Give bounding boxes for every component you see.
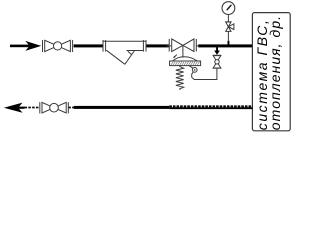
actuator diaphragm head of V2 [170, 55, 201, 66]
filter F1 Y-strainer [103, 40, 146, 64]
wire: impulse line [192, 68, 217, 79]
valve V3 small impulse ball valve (vertical) [213, 55, 222, 68]
consumer box (система ГВС, отопления, др.) [252, 13, 290, 131]
wire: stub gauge cock to manometer [227, 15, 229, 22]
impulse connector circle on actuator [189, 66, 193, 69]
wire: gauge stub from pipe up [228, 41, 230, 45]
valve V1 ball valve (top-left) [43, 40, 73, 52]
manometer PI gauge [222, 2, 235, 15]
valve V5 three-way gauge cock [225, 22, 234, 32]
valve V4 ball valve (return line) [40, 102, 69, 113]
wire: top pipe segment valve1-filter [74, 44, 104, 47]
wire: bottom return pipe dashed segment to box [169, 105, 252, 107]
wire: bottom return pipe solid segment [74, 106, 170, 109]
wire: top pipe segment after control valve to box [196, 45, 199, 47]
wire: top pipe segment filter-control valve [146, 44, 169, 47]
box label text [254, 15, 283, 130]
spring below actuator [176, 66, 184, 90]
svg-text:отопления, др.: отопления, др. [267, 15, 283, 130]
return flow arrow (outlet, bottom-left) [4, 103, 23, 113]
valve V2 pressure-reducing control valve [169, 39, 196, 58]
wire: thin dashed pipe at valve V4 [25, 107, 40, 109]
supply flow arrow (inlet, top-left) [10, 41, 41, 51]
vent arrow [174, 55, 177, 58]
valve stem [182, 45, 184, 57]
diaphragm hatch [171, 62, 199, 65]
black tap arrow from pipe down to V3 [214, 47, 220, 55]
